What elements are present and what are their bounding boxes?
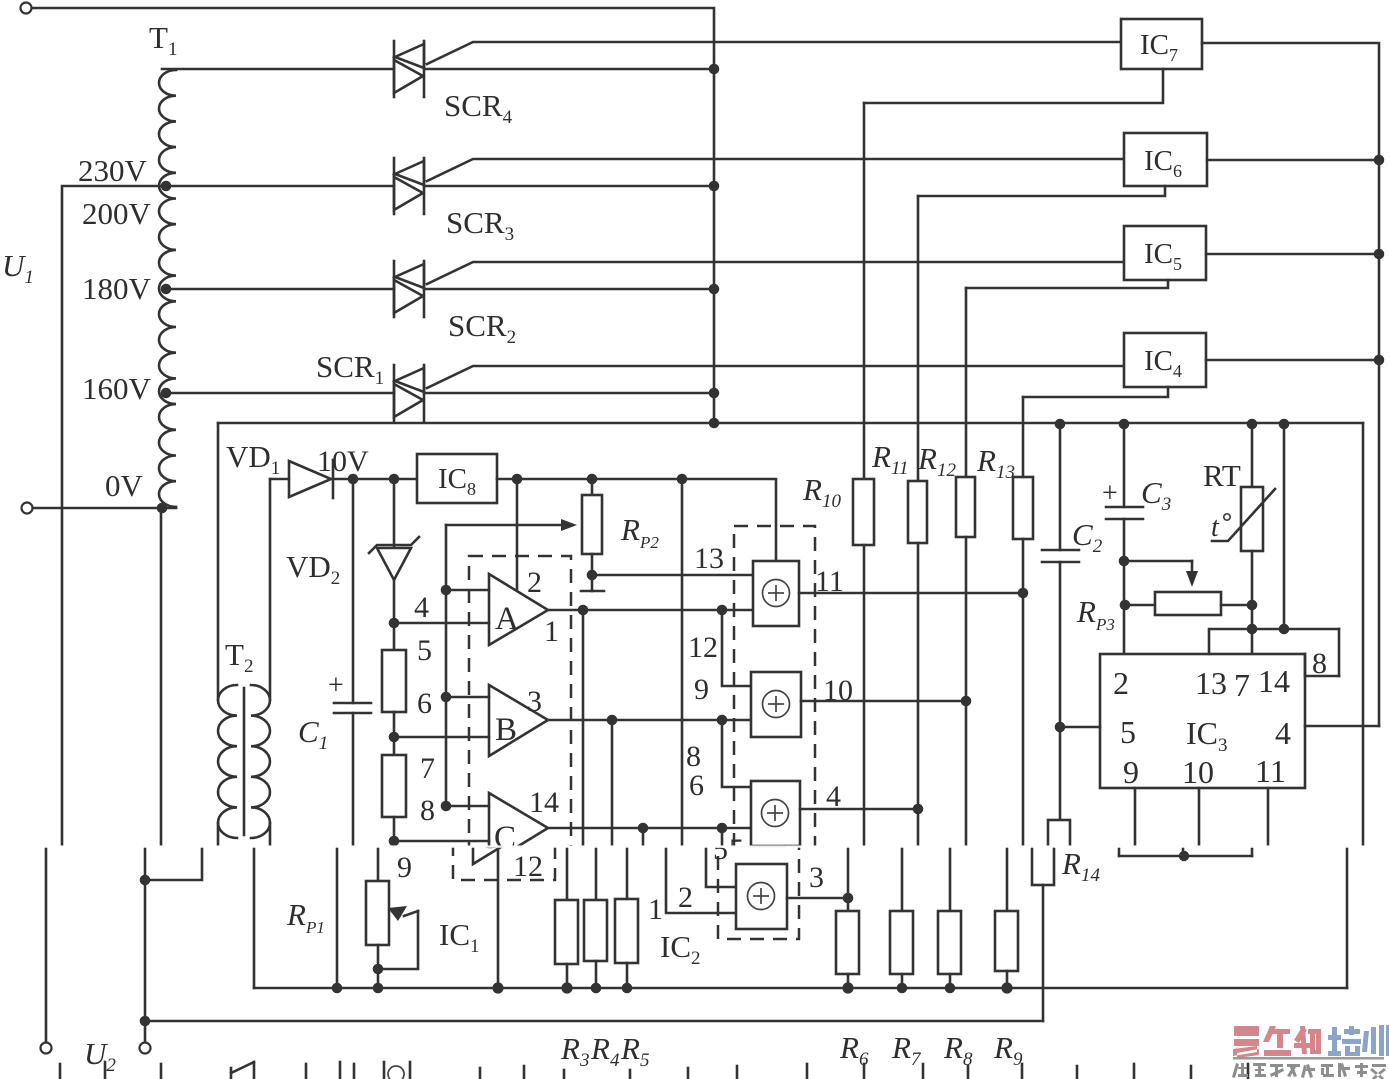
watermark underline bbox=[1233, 1057, 1384, 1060]
stitch seam light band bbox=[0, 845, 1389, 847]
watermark logo yiditu bbox=[1233, 1026, 1321, 1058]
watermark tagline bbox=[1232, 1063, 1386, 1079]
